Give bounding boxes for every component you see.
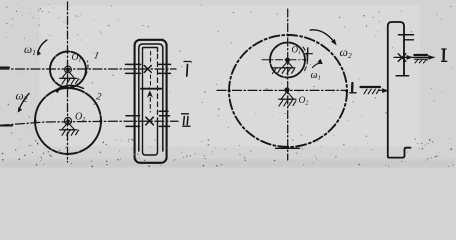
node O1 dot	[285, 58, 290, 63]
pivot at O1	[60, 71, 79, 85]
node O2 hub	[64, 117, 71, 124]
pinion centerline	[262, 59, 306, 61]
label shaft I	[184, 61, 191, 63]
pinion gear X	[398, 54, 406, 62]
bearing shaft II right	[159, 111, 169, 126]
gear2 rotation arc	[56, 85, 84, 90]
horizontal centerline O2	[217, 89, 346, 91]
vertical centerline	[67, 2, 69, 162]
pivot at O2	[279, 92, 297, 107]
vertical centerline	[287, 9, 289, 160]
pivot at O2	[60, 123, 79, 136]
pivot at O1	[272, 62, 295, 74]
frame support	[414, 54, 427, 56]
omega1 arrow	[313, 63, 322, 67]
gear 1 circle	[50, 52, 86, 88]
ink blobs at line crossings	[34, 34, 348, 156]
rim foot bar	[396, 75, 408, 77]
node O1 hub	[65, 66, 72, 73]
casing outer	[135, 40, 167, 163]
omega2 pointer	[19, 94, 29, 110]
omega2 arrow	[310, 30, 335, 43]
omega1 arrow	[38, 40, 47, 53]
rim bearing bars	[399, 34, 414, 36]
shaft I centerline	[0, 68, 176, 70]
bottom tick	[276, 147, 300, 149]
label I annulus shaft	[351, 83, 354, 91]
shaft I centerline edge tick	[0, 66, 9, 68]
gear 2 section X	[146, 117, 154, 125]
mark 1	[306, 48, 308, 61]
mesh line with arrow	[149, 98, 151, 113]
node O2 dot	[284, 87, 289, 92]
pinion 1 circle	[270, 43, 305, 78]
annulus rim profile	[388, 22, 404, 156]
shaft II centerline edge tick	[0, 125, 12, 127]
gear 2 circle	[35, 88, 101, 154]
bearing shaft II left	[126, 116, 140, 127]
bearing shaft I right	[159, 64, 171, 73]
scan speckles	[2, 4, 454, 168]
label shaft I	[442, 48, 446, 50]
gear 1 pitch arc (dashed)	[86, 61, 89, 76]
frame anchor of annulus rim	[361, 86, 381, 88]
gear axis hidden line	[150, 52, 152, 87]
shaft II centerline	[0, 121, 178, 125]
paper background	[0, 0, 456, 168]
inner right hidden edge	[157, 54, 159, 116]
gear 1 section X	[144, 66, 151, 73]
shaft I line with arrows	[394, 56, 434, 58]
bearing shaft I left	[126, 64, 141, 73]
casing middle	[139, 44, 163, 151]
pinion pitch arc	[303, 47, 308, 72]
casing inner	[143, 48, 158, 156]
label shaft II	[182, 113, 189, 115]
rim bottom hook	[388, 148, 411, 158]
annulus gear 2 pitch circle	[229, 35, 347, 147]
